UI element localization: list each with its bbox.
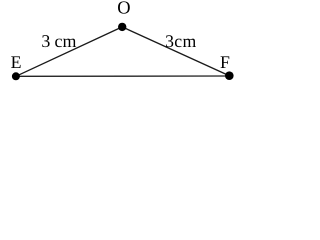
svg-text:3: 3 (41, 31, 50, 51)
svg-text:E: E (11, 52, 22, 72)
svg-text:3cm: 3cm (165, 31, 197, 51)
svg-text:cm: cm (55, 31, 77, 51)
svg-text:O: O (117, 0, 130, 18)
svg-text:F: F (220, 52, 230, 72)
